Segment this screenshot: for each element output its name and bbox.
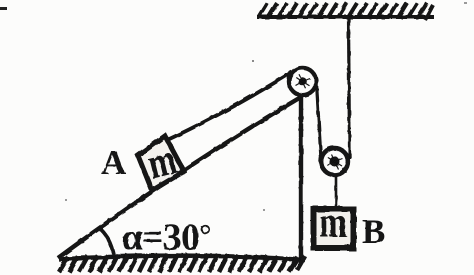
svg-text:B: B (362, 212, 385, 251)
rope from block A to upper pulley (163, 72, 292, 142)
svg-text:A: A (101, 143, 127, 182)
block A (mass m on incline) (138, 136, 184, 191)
incline hypotenuse (58, 97, 301, 258)
scan artifact dash top-left (0, 7, 7, 10)
ceiling (257, 3, 434, 20)
lower pulley (321, 148, 348, 175)
scan speck (263, 209, 265, 211)
block B (hanging mass m) (314, 199, 354, 248)
svg-text:α=30°: α=30° (122, 217, 211, 259)
scan speck (252, 60, 254, 62)
angle arc (99, 228, 115, 257)
incline base (59, 256, 305, 260)
upper pulley (289, 68, 316, 95)
incline vertical edge (299, 97, 303, 260)
rope from upper pulley to lower pulley (317, 83, 322, 159)
rope from lower pulley to block B (335, 172, 338, 211)
scan speck (464, 2, 467, 4)
svg-text:m: m (319, 199, 346, 246)
ground hatching (59, 254, 305, 272)
ceiling rope (349, 18, 350, 159)
scan speck (65, 199, 67, 201)
